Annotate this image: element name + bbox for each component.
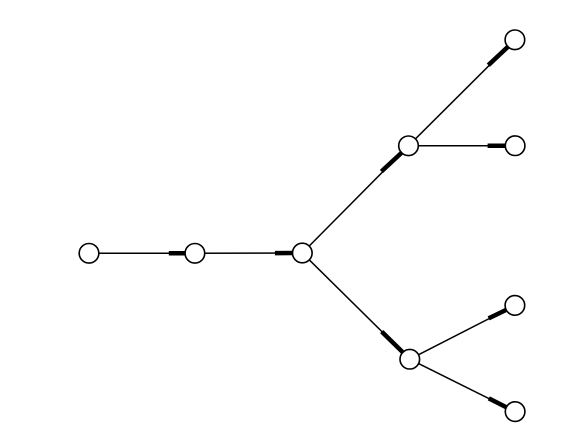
edge head bar D-F bbox=[488, 143, 506, 148]
wire C-G bbox=[302, 253, 410, 359]
edge head bar C-G bbox=[382, 332, 403, 353]
wire D-F bbox=[409, 145, 516, 147]
node I bbox=[505, 402, 525, 422]
wire D-E bbox=[409, 40, 515, 146]
edge head bar D-E bbox=[488, 47, 508, 65]
node A bbox=[79, 244, 99, 264]
node G bbox=[400, 349, 420, 369]
edge head bar G-H bbox=[489, 310, 507, 319]
edge head bar C-D bbox=[381, 153, 401, 172]
wire G-I bbox=[410, 359, 515, 411]
wire C-D bbox=[302, 146, 408, 253]
node C bbox=[293, 243, 313, 263]
node D bbox=[399, 136, 419, 156]
node F bbox=[505, 136, 525, 156]
node B bbox=[185, 244, 205, 264]
wire B-C bbox=[195, 252, 302, 254]
edge head bar B-C bbox=[275, 251, 293, 256]
edge head bar A-B bbox=[169, 251, 185, 256]
node E bbox=[505, 30, 525, 50]
node H bbox=[505, 296, 525, 316]
wire A-B bbox=[89, 252, 195, 254]
edge head bar G-I bbox=[489, 398, 507, 407]
wire G-H bbox=[410, 305, 515, 359]
